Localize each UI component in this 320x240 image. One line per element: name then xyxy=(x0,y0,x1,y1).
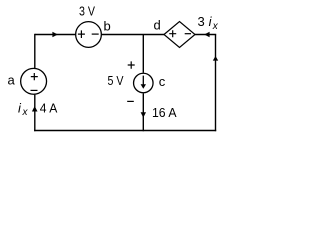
current arrow 3 ix (leftward) xyxy=(204,32,209,38)
plus sign of 5 V polarity xyxy=(128,61,135,68)
svg-text:5 V: 5 V xyxy=(108,73,124,88)
svg-text:x: x xyxy=(22,107,29,118)
svg-text:16 A: 16 A xyxy=(152,105,177,120)
svg-text:a: a xyxy=(8,73,16,88)
svg-text:d: d xyxy=(154,18,161,33)
svg-text:c: c xyxy=(159,74,166,89)
current source c (circle) xyxy=(134,73,154,93)
current arrow on right wire (upward) xyxy=(213,56,218,61)
wire: top middle segment (b to diamond) xyxy=(102,34,164,36)
minus sign of source a xyxy=(31,89,38,91)
svg-text:i: i xyxy=(18,100,22,115)
plus sign inside diamond xyxy=(169,30,176,37)
wire: left vertical lower segment xyxy=(34,95,36,132)
arrow inside current source c (downward) xyxy=(142,76,144,85)
svg-text:b: b xyxy=(104,18,111,33)
dependent source diamond xyxy=(164,22,195,48)
svg-text:x: x xyxy=(212,21,219,32)
voltage source 3 V (circle) xyxy=(76,22,102,48)
minus sign of 3 V source xyxy=(92,33,99,35)
wire: diamond to top-right corner xyxy=(195,34,216,36)
wire: left vertical upper segment xyxy=(34,34,36,68)
wire: middle vertical upper segment xyxy=(142,35,144,73)
current arrow ix on left wire (upward) xyxy=(32,106,38,112)
wire: middle vertical lower segment xyxy=(142,93,144,131)
plus sign of source a xyxy=(31,73,38,80)
svg-text:3: 3 xyxy=(198,14,205,29)
wire: top-left horizontal segment xyxy=(35,34,76,36)
svg-text:3 V: 3 V xyxy=(79,4,95,19)
minus sign inside diamond xyxy=(185,33,191,35)
wire: bottom horizontal segment xyxy=(34,130,216,132)
wire: right vertical segment xyxy=(215,35,217,132)
plus sign of 3 V source xyxy=(78,30,85,38)
current arrow 16 A on middle wire (downward) xyxy=(141,112,146,117)
minus sign of 5 V polarity xyxy=(127,100,134,102)
current arrow on top wire (rightward) xyxy=(52,32,57,38)
svg-text:4 A: 4 A xyxy=(40,100,58,115)
voltage source a (circle) xyxy=(21,68,47,94)
